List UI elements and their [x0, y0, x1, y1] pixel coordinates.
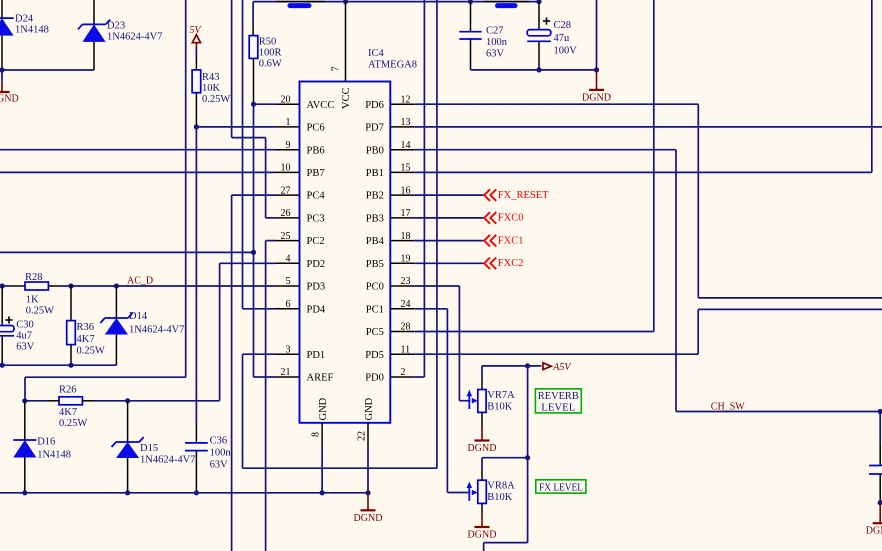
wire vertical from top edge to R26 node link	[185, 0, 187, 377]
svg-text:0.25W: 0.25W	[202, 94, 230, 105]
pin 28 PC5	[366, 322, 414, 338]
wire VR8A top lead	[481, 458, 483, 468]
svg-text:PD4: PD4	[307, 304, 326, 315]
svg-text:8: 8	[311, 432, 322, 437]
junction top rail / C27	[468, 0, 473, 4]
wire AVCC pin to R50 node	[254, 103, 276, 105]
wire PC6 reset node	[196, 126, 275, 128]
svg-text:DGND: DGND	[468, 530, 497, 541]
junction R36 bottom	[68, 363, 73, 368]
svg-text:AC_D: AC_D	[127, 276, 153, 287]
svg-text:1K: 1K	[26, 294, 39, 305]
svg-text:GND: GND	[0, 93, 19, 104]
pin 1 PC6	[276, 117, 325, 133]
wire D24 cathode from top edge	[1, 0, 3, 18]
junction bus / AVCC-AREF line	[251, 250, 256, 255]
svg-text:PB0: PB0	[366, 145, 384, 156]
svg-text:13: 13	[401, 117, 411, 128]
svg-text:PB2: PB2	[366, 191, 384, 202]
pin 3 PD1	[276, 344, 326, 360]
node FX LEVEL	[536, 480, 586, 494]
diode D23 (zener)	[78, 19, 163, 70]
wire PD1 down	[242, 354, 244, 468]
wire PB0 down (CH_SW)	[675, 150, 677, 412]
svg-text:1N4148: 1N4148	[37, 450, 71, 461]
wire VR8A top row	[482, 457, 528, 459]
wire PC5 row	[414, 331, 654, 333]
wire PB5 to FXC2	[414, 262, 483, 264]
wire vertical from top edge (PC3 net)	[231, 0, 233, 138]
svg-text:DGND: DGND	[468, 443, 497, 454]
svg-text:PD3: PD3	[307, 282, 326, 293]
wire PD0 row	[414, 376, 424, 378]
net label AC_D	[127, 276, 153, 287]
wire PD0 up to top edge	[423, 0, 425, 377]
svg-text:IC4: IC4	[368, 48, 385, 59]
wire vertical from top edge (PD1 net)	[436, 0, 438, 468]
wire A5V row	[482, 365, 541, 367]
pin 25 PC2	[276, 231, 325, 247]
svg-text:100n: 100n	[486, 37, 508, 48]
svg-text:PB7: PB7	[307, 168, 325, 179]
svg-text:R26: R26	[59, 385, 77, 396]
wire fuse F pins	[276, 1, 325, 3]
svg-text:25: 25	[281, 231, 291, 242]
svg-text:PB5: PB5	[366, 259, 384, 270]
wire PB7 row from left edge	[0, 171, 276, 173]
svg-text:DGND: DGND	[866, 526, 882, 537]
wire D23 cathode from top edge	[93, 0, 95, 24]
junction top rail / IC VCC pin	[343, 0, 348, 4]
wire down to R26 node	[24, 377, 26, 401]
resistor R36	[67, 286, 105, 365]
svg-text:PB3: PB3	[366, 214, 384, 225]
wire PD6 row	[414, 103, 698, 105]
pin 26 PC3	[276, 208, 325, 224]
svg-text:PC3: PC3	[307, 214, 325, 225]
svg-text:R36: R36	[77, 322, 95, 333]
wire D24 anode to D23 anode	[2, 69, 94, 71]
resistor R26	[25, 385, 94, 429]
wire PC0 down to VR7A wiper	[458, 286, 460, 401]
svg-text:PD5: PD5	[365, 350, 384, 361]
wire PC2 down to bottom edge	[265, 241, 267, 551]
svg-text:DGND: DGND	[354, 513, 383, 524]
net label FXC2	[484, 258, 523, 270]
svg-text:63V: 63V	[16, 342, 35, 353]
svg-text:PB4: PB4	[366, 236, 385, 247]
junction VR8A top	[525, 455, 530, 460]
svg-text:REVERB: REVERB	[538, 391, 579, 402]
junction C30 bottom	[0, 363, 5, 368]
fuse bar left	[290, 3, 309, 8]
junction pin22 / ground bus / DGND	[365, 490, 370, 495]
svg-text:28: 28	[401, 322, 411, 333]
svg-text:1N4624-4V7: 1N4624-4V7	[140, 455, 195, 466]
resistor R50	[249, 2, 282, 105]
pin 23 PC0	[366, 276, 414, 292]
junction C30 / R28	[0, 283, 5, 288]
svg-text:2: 2	[401, 367, 406, 378]
ground DGND VR7A	[468, 427, 497, 455]
op-amp U IC4 ATMEGA8 box	[300, 48, 418, 423]
wire AREF row	[254, 376, 276, 378]
svg-text:FXC0: FXC0	[498, 213, 524, 224]
diode D15 (zener)	[112, 401, 196, 493]
pin 24 PC1	[366, 299, 414, 315]
svg-text:11: 11	[401, 344, 411, 355]
pin 14 PB0	[366, 140, 414, 156]
wire CH_SW to right edge	[676, 411, 880, 413]
wire PB0 row	[414, 149, 676, 151]
svg-text:47u: 47u	[554, 33, 571, 44]
net label FX_RESET	[484, 189, 549, 201]
svg-text:C27: C27	[486, 26, 504, 37]
svg-text:4: 4	[286, 254, 291, 265]
wire PC0 row	[414, 285, 459, 287]
svg-text:PB1: PB1	[366, 168, 384, 179]
svg-text:D23: D23	[107, 21, 125, 32]
capacitor right-edge	[869, 412, 882, 503]
svg-text:20: 20	[281, 94, 291, 105]
wire VR8A wiper	[447, 492, 470, 494]
svg-text:1N4148: 1N4148	[15, 24, 49, 35]
ground DGND VR8A	[468, 513, 497, 541]
svg-text:10K: 10K	[202, 83, 221, 94]
svg-text:24: 24	[401, 299, 411, 310]
wire jog down to PC3 row	[265, 138, 267, 218]
wire fuse F2 pins	[484, 1, 529, 3]
wire PB1 row	[414, 171, 872, 173]
svg-text:12: 12	[401, 94, 411, 105]
wire PB3 to FXC0	[414, 217, 483, 219]
wire R26 row to PD2 riser	[94, 400, 220, 402]
wire VCC top rail	[253, 1, 539, 3]
svg-text:CH_SW: CH_SW	[711, 402, 745, 413]
svg-text:PC1: PC1	[366, 304, 384, 315]
junction D24/D23/GND node	[0, 67, 5, 72]
svg-text:0.25W: 0.25W	[59, 418, 87, 429]
junction R50 / AVCC	[251, 102, 256, 107]
svg-text:63V: 63V	[210, 460, 229, 471]
pin 6 PD4	[276, 299, 326, 315]
junction CH_SW / right-edge cap	[878, 409, 882, 414]
junction R43 / PC6 / C36 line	[194, 124, 199, 129]
ground DGND	[582, 70, 611, 104]
net label FXC0	[484, 212, 523, 224]
svg-text:B10K: B10K	[487, 492, 513, 503]
svg-text:PD2: PD2	[307, 259, 326, 270]
pin 18 PB4	[366, 231, 414, 247]
svg-text:14: 14	[401, 140, 411, 151]
svg-text:LEVEL: LEVEL	[541, 402, 575, 413]
svg-text:1N4624-4V7: 1N4624-4V7	[129, 324, 184, 335]
wire to bottom edge	[483, 543, 485, 551]
junction R36 / AC_D	[68, 283, 73, 288]
wire PC1 row	[414, 308, 447, 310]
pin 15 PB1	[366, 163, 414, 179]
wire VR7A top	[481, 366, 483, 377]
svg-text:27: 27	[281, 185, 291, 196]
pin 16 PB2	[366, 185, 414, 201]
svg-text:FXC2: FXC2	[498, 258, 524, 269]
wire from top edge to DGND node	[596, 0, 598, 70]
wire PB6 row from left edge	[0, 149, 276, 151]
svg-text:B10K: B10K	[487, 402, 513, 413]
svg-text:R43: R43	[202, 72, 220, 83]
svg-text:4K7: 4K7	[77, 334, 95, 345]
svg-text:FX LEVEL: FX LEVEL	[539, 482, 583, 493]
svg-text:VR8A: VR8A	[487, 481, 515, 492]
svg-text:D16: D16	[37, 437, 55, 448]
wire PD7 row to right edge	[414, 126, 882, 128]
pin 19 PB5	[366, 254, 414, 270]
svg-text:26: 26	[281, 208, 291, 219]
svg-text:17: 17	[401, 208, 411, 219]
svg-text:21: 21	[281, 367, 291, 378]
wire PC4 down to bottom edge	[231, 195, 233, 551]
pin 12 PD6	[365, 94, 414, 110]
svg-text:PC4: PC4	[307, 191, 326, 202]
pin 7 VCC	[331, 2, 353, 109]
svg-text:22: 22	[357, 431, 368, 441]
svg-text:PC5: PC5	[366, 327, 384, 338]
power symbol A5V	[543, 362, 572, 373]
junction D15 / R26 node	[125, 398, 130, 403]
svg-text:0.6W: 0.6W	[259, 58, 282, 69]
svg-text:4K7: 4K7	[59, 407, 77, 418]
wire PD5 row	[414, 353, 698, 355]
pin 4 PD2	[276, 254, 326, 270]
wire AC_D block bottom	[0, 364, 116, 366]
svg-text:0.25W: 0.25W	[26, 305, 54, 316]
pin 13 PD7	[365, 117, 414, 133]
svg-text:FX_RESET: FX_RESET	[498, 190, 549, 201]
capacitor C27	[459, 2, 507, 70]
diode D16	[13, 401, 71, 493]
net label FXC1	[484, 235, 523, 247]
svg-text:FXC1: FXC1	[498, 235, 524, 246]
svg-text:PC0: PC0	[366, 282, 384, 293]
pin 5 PD3	[276, 276, 326, 292]
svg-text:C30: C30	[16, 320, 34, 331]
svg-text:AREF: AREF	[307, 373, 334, 384]
pin 17 PB3	[366, 208, 414, 224]
junction pin8 / ground bus	[320, 490, 325, 495]
svg-text:D14: D14	[129, 311, 148, 322]
svg-text:23: 23	[401, 276, 411, 287]
wire pin 8 to ground bus	[321, 447, 323, 493]
junction D15 / ground bus	[125, 490, 130, 495]
wire PC2 row	[266, 240, 276, 242]
pin 11 PD5	[365, 344, 414, 360]
svg-text:PD0: PD0	[365, 373, 384, 384]
svg-text:0.25W: 0.25W	[77, 346, 105, 357]
svg-text:C28: C28	[554, 20, 572, 31]
wire AC_D row to PD3	[116, 285, 275, 287]
diode D14 (zener)	[100, 286, 184, 365]
pin 9 PB6	[276, 140, 325, 156]
svg-text:18: 18	[401, 231, 411, 242]
junction top rail end / C28	[536, 0, 541, 4]
wire vertical from top edge to PD4	[242, 0, 244, 309]
capacitor C36	[185, 424, 231, 493]
ground DGND	[354, 493, 383, 524]
wire ground bus bottom	[0, 492, 368, 494]
svg-text:1: 1	[286, 117, 291, 128]
svg-text:PD7: PD7	[365, 123, 384, 134]
resistor R43	[192, 47, 230, 127]
svg-text:6: 6	[286, 299, 291, 310]
wire PD1 row	[243, 353, 276, 355]
junction D14 / AC_D	[114, 283, 119, 288]
svg-text:10: 10	[281, 163, 291, 174]
svg-text:PC6: PC6	[307, 123, 325, 134]
svg-text:16: 16	[401, 185, 411, 196]
wire A5V chain bottom jog	[484, 542, 528, 544]
wire R28 to D14	[60, 285, 116, 287]
svg-text:100R: 100R	[259, 47, 282, 58]
svg-text:R50: R50	[259, 36, 277, 47]
wire PB4 to FXC1	[414, 240, 483, 242]
svg-text:GND: GND	[364, 397, 375, 420]
svg-text:ATMEGA8: ATMEGA8	[368, 60, 417, 71]
pin 27 PC4	[276, 185, 326, 201]
fuse bar right	[498, 3, 516, 8]
svg-text:15: 15	[401, 163, 411, 174]
pin 22 GND	[357, 397, 376, 446]
svg-text:D15: D15	[140, 443, 158, 454]
svg-text:PD6: PD6	[365, 100, 384, 111]
junction DGND node	[594, 67, 599, 72]
wire PC3 row	[266, 217, 276, 219]
resistor R28	[0, 272, 60, 316]
junction C36 / ground bus	[194, 490, 199, 495]
wire C27/C28 ground bus	[471, 69, 597, 71]
wire PD2 down to R26 node	[219, 263, 221, 401]
svg-text:GND: GND	[318, 397, 329, 420]
svg-text:9: 9	[286, 140, 291, 151]
svg-text:1N4624-4V7: 1N4624-4V7	[107, 31, 162, 42]
svg-text:D24: D24	[15, 14, 34, 25]
wire PC5 up to top edge	[653, 0, 655, 332]
pin 2 PD0	[365, 367, 414, 383]
svg-text:19: 19	[401, 254, 411, 265]
junction D16 / R26 node	[22, 398, 27, 403]
net label CH_SW	[711, 402, 745, 413]
wire PD4 row	[243, 308, 276, 310]
ground GND	[0, 70, 19, 104]
potentiometer VR8A	[467, 468, 516, 513]
capacitor C30	[0, 286, 35, 365]
diode D24	[0, 14, 49, 71]
svg-text:PC2: PC2	[307, 236, 325, 247]
pin 10 PB7	[276, 163, 325, 179]
svg-text:7: 7	[331, 66, 342, 71]
svg-text:AVCC: AVCC	[307, 100, 335, 111]
power symbol 5V	[190, 25, 203, 47]
junction right-edge cap bottom	[878, 500, 882, 505]
svg-text:100n: 100n	[210, 448, 232, 459]
wire PC1 down to VR8A wiper	[446, 309, 448, 493]
svg-text:PB6: PB6	[307, 145, 325, 156]
potentiometer VR7A	[467, 377, 516, 427]
svg-text:100V: 100V	[554, 46, 578, 57]
svg-text:R28: R28	[25, 272, 43, 283]
wire link to R26 node	[25, 376, 186, 378]
svg-text:4u7: 4u7	[16, 331, 32, 342]
capacitor C28	[527, 2, 577, 70]
wire PD2 row	[220, 262, 276, 264]
wire PB2 to FX_RESET	[414, 194, 483, 196]
svg-text:VR7A: VR7A	[487, 390, 515, 401]
wire pin 22 to ground bus	[367, 447, 369, 493]
wire PC4 row	[232, 194, 276, 196]
wire A5V chain down	[527, 366, 529, 543]
node REVERB LEVEL	[535, 389, 581, 414]
pin 20 AVCC	[276, 94, 335, 110]
svg-text:DGND: DGND	[582, 92, 611, 103]
junction C28 / ground bus	[536, 67, 541, 72]
wire AVCC down to AREF	[253, 104, 255, 377]
pin 21 AREF	[276, 367, 334, 383]
wire PD1 jog bottom	[243, 467, 437, 469]
wire PD5 to right edge	[698, 308, 882, 310]
svg-text:3: 3	[286, 344, 291, 355]
wire bus row from left edge to AVCC line	[0, 251, 254, 253]
svg-text:A5V: A5V	[552, 362, 572, 373]
wire PC6 down to C36	[195, 127, 197, 424]
pin 8 GND	[311, 397, 330, 446]
ground DGND right edge	[866, 503, 882, 537]
wire PD5 up	[697, 309, 699, 354]
svg-text:VCC: VCC	[341, 87, 352, 109]
junction D16 / ground bus	[22, 490, 27, 495]
wire PD6 down	[697, 104, 699, 298]
svg-text:PD1: PD1	[307, 350, 326, 361]
junction VR7A / A5V	[525, 363, 530, 368]
svg-text:63V: 63V	[486, 49, 505, 60]
svg-text:5: 5	[286, 276, 291, 287]
wire jog PC3 net	[232, 137, 266, 139]
wire PD6 to right edge	[698, 297, 882, 299]
wire VR7A wiper	[459, 400, 470, 402]
wire PB1 up to top edge	[871, 0, 873, 172]
svg-text:C36: C36	[210, 436, 228, 447]
